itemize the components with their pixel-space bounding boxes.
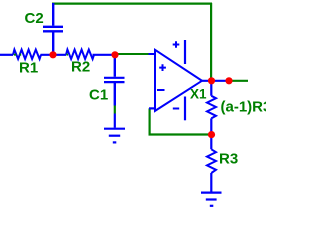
wire: green dash under R2: [66, 54, 68, 56]
wire: green gap under C1: [114, 106, 116, 114]
op-amp X1 triangle: [155, 50, 202, 111]
wire: input rail left: [0, 54, 13, 56]
node dot 3 (output junction): [208, 77, 215, 84]
resistor R3 zigzag: [207, 149, 216, 173]
wire: node2 to op-amp plus input: [115, 53, 151, 55]
capacitor C1 leads: [114, 55, 116, 106]
resistor R3 leads: [210, 135, 212, 193]
resistor R1: [13, 50, 41, 59]
wire: output stub: [229, 80, 248, 82]
wire: between R1 and R2 (through node 1): [41, 54, 67, 56]
wire: top feedback horizontal: [52, 2, 212, 4]
op-amp minus input stub: [149, 107, 156, 109]
capacitor C2 leads: [52, 3, 54, 55]
op-amp V+ power bar: [184, 40, 186, 64]
resistor R2: [66, 50, 94, 59]
node dot 5 (R3 divider junction): [208, 131, 215, 138]
node dot 2 (R2/C1/op-amp junction): [111, 51, 118, 58]
op-amp plus input stub: [149, 53, 157, 55]
node dot 4 (output stub): [225, 77, 232, 84]
node dot 1 (R1/R2/C2 junction): [49, 51, 56, 58]
capacitor C1 plates: [104, 78, 125, 82]
svg-text:(a-1)R3: (a-1)R3: [221, 99, 267, 116]
svg-text:C2: C2: [25, 10, 44, 27]
op-amp inner plus marker: [159, 64, 166, 71]
svg-text:X1: X1: [190, 87, 207, 102]
op-amp output wire: [201, 80, 229, 82]
svg-text:R2: R2: [71, 59, 90, 76]
wire: feedback vertical right: [210, 3, 212, 81]
wire: R2 to node 2: [93, 54, 116, 56]
wire: minus feedback loop: [150, 108, 212, 134]
resistor (a-1)R3 zigzag: [207, 96, 216, 119]
ground below R3: [201, 193, 222, 206]
op-amp V- power bar: [184, 97, 186, 121]
op-amp V+ plus sign: [173, 41, 180, 48]
svg-text:C1: C1: [89, 87, 108, 104]
svg-text:R3: R3: [219, 151, 238, 168]
ground below C1: [104, 114, 125, 143]
capacitor C2 plates: [43, 27, 63, 32]
op-amp inner minus marker: [157, 89, 165, 91]
resistor (a-1)R3 leads: [210, 81, 212, 135]
op-amp V- minus sign: [173, 108, 179, 110]
wire: green dashes under R1: [14, 54, 21, 56]
svg-text:R1: R1: [19, 60, 38, 77]
